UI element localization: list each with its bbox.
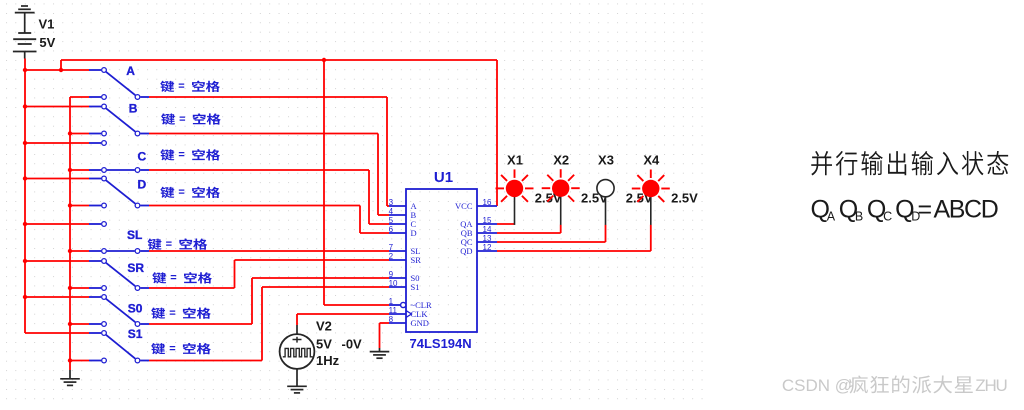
label key=space for switch B: [161, 113, 221, 125]
svg-text:1: 1: [389, 297, 394, 306]
note line 1: [811, 151, 1008, 175]
junction gnd bus / D: [68, 203, 72, 207]
wire gnd feed to switch C: [70, 169, 89, 171]
wire top 5V rail: [61, 59, 497, 61]
wire QC pin 13 to X3: [497, 225, 606, 242]
junction top rail: [59, 68, 63, 72]
svg-text:7: 7: [389, 243, 394, 252]
wire 5V feed to switch S1: [25, 332, 89, 334]
switch S1: [89, 327, 149, 363]
wire battery to bus: [24, 59, 26, 71]
svg-text:SL: SL: [127, 228, 142, 242]
switch D: [89, 176, 149, 208]
wire GND pin 8 to ground: [380, 323, 390, 348]
switch B: [89, 101, 149, 135]
junction gnd bus / SL: [68, 249, 72, 253]
wire gnd feed to switch SL: [70, 250, 89, 252]
junction 5V bus / A: [23, 68, 27, 72]
svg-text:ABCD: ABCD: [934, 195, 998, 223]
label 74LS194N: [410, 336, 472, 351]
probe X4: [632, 170, 670, 225]
label key=space for switch D: [160, 187, 220, 199]
label X1: [507, 152, 523, 167]
wire ground bus top corner: [70, 96, 89, 98]
svg-text:11: 11: [389, 306, 398, 315]
label U1: [434, 169, 453, 186]
svg-text:B: B: [129, 101, 138, 115]
value 2.5V (X2): [581, 190, 608, 205]
svg-text:QD: QD: [460, 246, 472, 256]
svg-text:VCC: VCC: [455, 201, 473, 211]
label X4: [643, 152, 660, 167]
svg-text:10: 10: [389, 279, 398, 288]
svg-text:X4: X4: [643, 152, 660, 167]
junction 5V bus / S0: [23, 295, 27, 299]
pin 16 (VCC): [455, 198, 497, 211]
svg-text:X2: X2: [553, 152, 569, 167]
wire switch D to pin 6: [149, 206, 389, 234]
junction gnd bus / C: [68, 168, 72, 172]
value 2.5V (X3): [626, 190, 653, 205]
svg-text:V1: V1: [39, 17, 55, 32]
junction gnd bus / S0: [68, 322, 72, 326]
label key=space for switch A: [160, 81, 220, 93]
svg-text:U1: U1: [434, 169, 453, 186]
probe X3: [597, 180, 614, 225]
switch S0: [89, 295, 149, 327]
wire QD pin 12 to X4: [497, 225, 651, 251]
pin 14 (QB): [461, 225, 497, 238]
svg-text:V2: V2: [316, 319, 332, 334]
ground (bottom left): [60, 370, 80, 385]
svg-text:SR: SR: [127, 261, 144, 275]
wire V2 to CLK pin 11: [297, 314, 389, 325]
pin 11 (CLK): [389, 306, 429, 319]
svg-text:SR: SR: [411, 255, 422, 265]
svg-text:C: C: [138, 150, 147, 164]
svg-text:B: B: [855, 209, 863, 223]
pin 9 (S0): [389, 270, 420, 283]
junction CLR drop: [322, 58, 326, 62]
wire VCC drop to pin 16: [496, 60, 498, 206]
svg-text:X1: X1: [507, 152, 523, 167]
wire V1 top: [24, 13, 26, 33]
wire ground bus (vertical): [69, 97, 71, 370]
svg-text:4: 4: [389, 207, 394, 216]
svg-text:5V: 5V: [39, 35, 55, 50]
pin 6 (D): [389, 225, 417, 238]
pin 15 (QA): [460, 216, 497, 229]
pin 7 (SL): [389, 243, 421, 256]
wire gnd feed to switch D: [70, 205, 89, 207]
grid dots: [0, 0, 703, 405]
svg-text:ZHU: ZHU: [975, 376, 1006, 395]
label key=space for switch S1: [151, 343, 211, 355]
wire switch S1 to pin 10: [149, 287, 389, 361]
wire switch SR to pin 2: [149, 260, 389, 288]
wire CLR drop: [324, 60, 389, 305]
svg-text:=: =: [918, 195, 933, 223]
value 5V: [39, 35, 55, 50]
junction gnd bus / SR: [68, 286, 72, 290]
svg-text:GND: GND: [411, 318, 429, 328]
junction 5V bus / D: [23, 176, 27, 180]
svg-text:A: A: [126, 64, 135, 78]
svg-text:C: C: [883, 209, 892, 223]
svg-text:9: 9: [389, 270, 394, 279]
label key=space for switch S0: [151, 307, 211, 319]
svg-text:S1: S1: [411, 282, 420, 292]
value 1Hz: [316, 353, 340, 368]
wire gnd feed to switch SR: [70, 287, 89, 289]
wire 5V bus (left vertical): [24, 70, 26, 333]
svg-text:S0: S0: [128, 301, 143, 315]
note line 2 QAQBQCQD=ABCD: [811, 195, 998, 223]
wire 5V feed to switch B: [25, 106, 89, 108]
svg-text:6: 6: [389, 225, 394, 234]
value 2.5V (X1): [535, 190, 562, 205]
svg-text:8: 8: [389, 315, 394, 324]
wire 5V feed to switch A: [25, 69, 89, 71]
wire switch C to pin 5: [149, 170, 389, 224]
svg-text:16: 16: [483, 198, 492, 207]
watermark CSDN: [782, 375, 1007, 395]
value 2.5V (X4): [671, 190, 698, 205]
wire switch B to pin 4: [149, 134, 389, 216]
svg-text:12: 12: [483, 243, 492, 252]
pin 4 (B): [389, 207, 417, 220]
svg-text:-0V: -0V: [342, 336, 363, 351]
svg-text:5V: 5V: [316, 336, 332, 351]
junction 5V bus / SL: [23, 222, 27, 226]
svg-text:15: 15: [483, 216, 492, 225]
label key=space for switch C: [160, 149, 220, 161]
wire switch A to pin 3: [149, 97, 389, 206]
wire top rail riser: [60, 60, 62, 70]
wire 5V feed to switch C: [25, 142, 89, 144]
svg-text:5: 5: [389, 216, 394, 225]
junction gnd bus / S1: [68, 358, 72, 362]
label key=space for switch SL: [148, 238, 208, 250]
svg-text:13: 13: [483, 234, 492, 243]
wire QA pin 15 to X1: [497, 223, 515, 225]
junction 5V bus / B: [23, 104, 27, 108]
label V1: [39, 17, 55, 32]
ground (below V2): [287, 386, 307, 393]
probe X2: [542, 169, 580, 225]
junction gnd bus / B: [68, 131, 72, 135]
svg-text:3: 3: [389, 198, 394, 207]
svg-text:D: D: [411, 228, 417, 238]
op-amp U1 74LS194N body: [406, 189, 477, 332]
clock source V2: [280, 325, 315, 386]
ground (right of V2): [370, 348, 390, 358]
wire 5V feed to switch SL: [25, 223, 89, 225]
wire QB pin 14 to X2: [497, 225, 561, 233]
label V2: [316, 319, 332, 334]
label X3: [598, 152, 614, 167]
svg-text:A: A: [827, 209, 836, 223]
wire switch SL to pin 7: [149, 250, 389, 252]
svg-text:1Hz: 1Hz: [316, 353, 340, 368]
svg-text:CSDN @: CSDN @: [782, 376, 852, 395]
switch C: [89, 141, 149, 173]
probe X1: [496, 169, 534, 225]
label key=space for switch SR: [152, 272, 212, 284]
pin 8 (GND): [389, 315, 429, 328]
svg-text:14: 14: [483, 225, 492, 234]
svg-text:2.5V: 2.5V: [671, 190, 698, 205]
svg-text:D: D: [138, 178, 147, 192]
wire gnd feed to switch S0: [70, 323, 89, 325]
ground (flipped, above V1): [15, 6, 35, 13]
switch A: [89, 64, 149, 99]
svg-text:X3: X3: [598, 152, 614, 167]
switch SL: [89, 222, 149, 254]
svg-text:2: 2: [389, 252, 394, 261]
pin 13 (QC): [461, 234, 497, 247]
wire 5V feed to switch S0: [25, 296, 89, 298]
wire switch S0 to pin 9: [149, 278, 389, 324]
svg-text:S1: S1: [128, 327, 143, 341]
svg-text:74LS194N: 74LS194N: [410, 336, 472, 351]
value 5V -0V: [316, 336, 362, 351]
pin 10 (S1): [389, 279, 420, 292]
pin 5 (C): [389, 216, 417, 229]
pin 3 (A): [389, 198, 418, 211]
junction 5V bus / SR: [23, 259, 27, 263]
pin 12 (QD): [460, 243, 497, 256]
pin 2 (SR): [389, 252, 422, 265]
battery V1: [13, 33, 37, 59]
wire 5V feed to switch D: [25, 178, 89, 180]
wire 5V feed to switch SR: [25, 260, 89, 262]
label X2: [553, 152, 569, 167]
wire gnd feed to switch B: [70, 133, 89, 135]
pin 1 (~CLR): [389, 297, 432, 310]
junction 5V bus / C: [23, 141, 27, 145]
switch SR: [89, 259, 149, 291]
wire gnd feed to switch S1: [70, 360, 89, 362]
